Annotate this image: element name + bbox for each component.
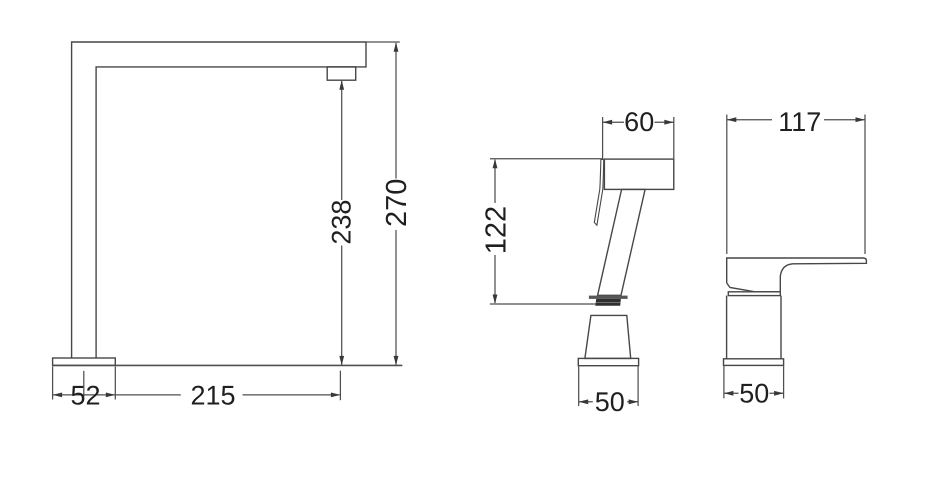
lever base notch [727,283,781,292]
dimension line 238 [341,81,343,365]
dimension line 50 right [724,392,784,394]
arrow 50mid right [629,399,639,404]
extension 117 left [726,115,728,255]
arrow 117 right [856,117,866,122]
extension 50right left [723,366,725,398]
svg-text:215: 215 [190,380,235,410]
sprayer flange [589,296,628,299]
baseline extension [53,364,403,366]
svg-text:52: 52 [70,381,100,411]
valve column [727,296,781,359]
arrow 270 up [394,42,399,52]
extension 60 left [602,117,604,159]
lever handle outline [727,258,867,292]
dimension line 50 middle [579,401,638,403]
extension below base right [114,367,116,400]
arrow 238 down [339,356,344,366]
spout nozzle [327,67,356,80]
arrow 50mid left [579,399,589,404]
svg-text:50: 50 [739,379,769,409]
arrow 122 down [493,295,498,305]
seal highlight [596,302,621,304]
extension 50mid right [637,367,639,407]
extension 117 right [864,115,866,255]
svg-text:50: 50 [595,387,625,417]
svg-text:117: 117 [778,107,821,137]
extension below base left [52,367,54,400]
svg-text:270: 270 [381,179,413,227]
cartridge collar [728,292,780,296]
extension 122 top [490,158,603,160]
arrow 122 up [493,159,498,169]
arrow 52 left [53,393,63,398]
arrow 117 left [727,117,737,122]
arrow 60 left [603,120,613,125]
svg-text:238: 238 [327,200,357,245]
dimension line 270 [395,43,397,365]
extension 60 right [673,117,675,189]
center tick [83,371,85,397]
sprayer handle tube [598,189,646,295]
svg-text:60: 60 [624,107,654,137]
extension 122 bottom [490,303,596,305]
extension 50mid left [578,367,580,407]
dimension line 117 [727,119,865,121]
sprayer rubber seal [595,299,621,306]
sprayer head [604,159,673,189]
arrow 270 down [394,356,399,366]
arrow 50right right [774,391,784,396]
arrow 52 right [106,393,116,398]
arrow 238 up [339,80,344,90]
extension 50right right [783,366,785,398]
arrow 215 right [331,393,341,398]
arrow 50right left [724,391,734,396]
faucet spout and body outline [72,42,366,358]
top extension line [366,41,400,43]
column base plate [724,359,784,366]
extension 215 right [339,371,341,401]
dimension line 52 and 215 [53,394,340,396]
faucet base plate [53,358,116,365]
dimension line 122 [494,160,496,303]
arrow 60 right [664,120,674,125]
holder cone [585,315,631,358]
holder base plate [578,358,638,365]
dimension line 60 [603,121,674,123]
svg-text:122: 122 [481,206,513,254]
sprayer trigger [594,159,603,225]
